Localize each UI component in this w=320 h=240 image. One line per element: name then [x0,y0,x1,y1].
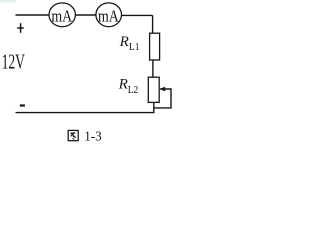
wire: R_L2 bottom lead down to bottom rail [153,102,155,112]
resistor R_L2 (rheostat body) [148,77,159,102]
wire: ammeter A2 to top-right corner [121,14,152,16]
ammeter A2 (mA) [96,3,122,27]
resistor R_L1 (body) [150,33,160,60]
svg-text:1-3: 1-3 [84,129,102,144]
svg-text:mA: mA [51,6,72,25]
wire: between ammeter A1 and ammeter A2 [75,14,96,16]
wire: top left segment from source + terminal to ammeter A1 [16,14,50,16]
wire: bottom rail from source - terminal to R_L2 lead [16,112,155,114]
label R_L2 [118,77,139,97]
ammeter A1 (mA) [49,3,75,27]
svg-text:R: R [119,34,130,50]
wire: R_L1 bottom to R_L2 top [152,60,154,78]
label R_L1 [119,34,140,53]
+ terminal symbol [17,23,24,33]
wire: right vertical drop to R_L1 [152,15,154,33]
svg-text:L2: L2 [128,85,139,96]
svg-text:mA: mA [98,6,119,25]
caption character 图 (drawn) [68,130,78,140]
svg-text:R: R [118,77,129,93]
wiper arm of R_L2 (arrow into right side, looped to bottom lead) [154,87,171,108]
svg-text:L1: L1 [129,42,140,53]
svg-text:12V: 12V [2,49,26,73]
scan artifact top-left [0,0,16,3]
- terminal symbol [20,104,25,106]
